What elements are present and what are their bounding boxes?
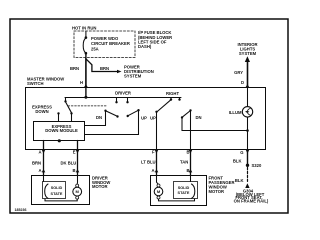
svg-text:25A: 25A — [91, 46, 99, 51]
svg-text:SYSTEM: SYSTEM — [124, 74, 142, 79]
svg-text:BLK: BLK — [235, 178, 244, 183]
svg-text:MOTOR: MOTOR — [92, 184, 108, 189]
svg-text:MOTOR: MOTOR — [209, 189, 225, 194]
svg-text:B: B — [72, 168, 75, 173]
svg-text:SOLID: SOLID — [178, 186, 190, 190]
svg-text:DRIVER: DRIVER — [115, 91, 131, 96]
svg-text:A: A — [151, 168, 154, 173]
svg-text:LT BLU: LT BLU — [141, 159, 156, 164]
svg-text:STATE: STATE — [178, 191, 190, 195]
svg-text:DK BLU: DK BLU — [61, 160, 77, 165]
svg-text:DOWN MODULE: DOWN MODULE — [45, 128, 78, 133]
svg-text:UP: UP — [141, 116, 147, 121]
svg-text:BRN: BRN — [32, 160, 41, 165]
svg-text:TAN: TAN — [180, 159, 188, 164]
svg-text:B: B — [186, 168, 189, 173]
svg-text:S320: S320 — [252, 163, 262, 168]
svg-text:ON FRAME RAIL): ON FRAME RAIL) — [234, 199, 269, 204]
svg-text:SOLID: SOLID — [51, 186, 63, 190]
svg-text:H: H — [80, 80, 83, 85]
svg-text:GRY: GRY — [234, 70, 243, 75]
svg-text:STATE: STATE — [51, 192, 63, 196]
svg-text:SWITCH: SWITCH — [27, 81, 44, 86]
svg-text:BRN: BRN — [70, 66, 79, 71]
svg-text:UP: UP — [150, 116, 156, 121]
svg-text:DN: DN — [96, 115, 102, 120]
svg-text:G: G — [240, 150, 243, 155]
svg-text:BRN: BRN — [100, 66, 109, 71]
svg-text:A: A — [38, 149, 41, 154]
svg-text:A: A — [38, 168, 41, 173]
svg-text:HOT IN RUN: HOT IN RUN — [72, 26, 96, 31]
svg-text:E: E — [73, 149, 76, 154]
svg-text:DOWN: DOWN — [35, 109, 48, 114]
svg-text:DASH): DASH) — [138, 44, 152, 49]
svg-text:BLK: BLK — [233, 158, 242, 163]
svg-text:D: D — [241, 80, 244, 85]
svg-text:ILLUM: ILLUM — [229, 110, 242, 115]
svg-text:RIGHT: RIGHT — [166, 91, 179, 96]
svg-text:SYSTEM: SYSTEM — [239, 51, 257, 56]
svg-text:B: B — [186, 149, 189, 154]
svg-text:DN: DN — [195, 115, 201, 120]
svg-text:185236: 185236 — [15, 208, 27, 212]
svg-text:F: F — [152, 149, 155, 154]
